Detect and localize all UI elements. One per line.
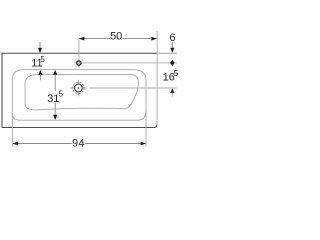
drain centerline horizontal (extends right to 16.5 chain) (90, 87, 177, 89)
drain center dot (78, 87, 80, 89)
dimension 50 left arrow (79, 37, 85, 41)
dimension 50 line (80, 38, 111, 40)
dimension 31.5 down arrow (53, 115, 57, 120)
dimension 94 right arrow (141, 142, 147, 146)
washbasin right edge + extension line for 50 dim (156, 31, 158, 125)
svg-text:5: 5 (40, 55, 45, 64)
svg-text:5: 5 (59, 90, 64, 99)
bowl opening (innermost rounded rect) (25, 75, 138, 110)
svg-text:5: 5 (174, 69, 179, 78)
dimension 16.5 up arrow (170, 88, 174, 93)
dimension 94 line (13, 143, 72, 145)
tap hole (77, 61, 81, 65)
dimension 6 down arrow (171, 42, 173, 48)
basin rim (inner rounded rect) (12, 70, 146, 121)
dimension 6 diamond marker (170, 60, 174, 67)
tap hole left tick (74, 62, 76, 64)
dimension 31.5 line upper (54, 74, 56, 90)
tap hole centerline horizontal (extends right to 6/16.5 chain) (82, 62, 177, 64)
tap hole bottom tick (78, 66, 80, 68)
svg-text:50: 50 (110, 31, 122, 43)
extension line top edge right (158, 52, 177, 54)
svg-text:94: 94 (72, 138, 85, 150)
dimension 31.5 line lower (54, 103, 56, 116)
tap hole centerline vertical (78, 39, 80, 61)
drain hole dashed bolt circle (73, 82, 84, 93)
dimension 31.5 up arrow (53, 70, 57, 75)
dimension 11.5 down arrow (39, 42, 41, 49)
dimension 94 left arrow (12, 142, 18, 146)
dimension 11.5 up arrow (38, 70, 42, 75)
dimension 50 right arrow (151, 37, 157, 41)
extension line 94 right (145, 110, 147, 147)
extension line 94 left (11, 113, 13, 147)
drain ticks (77, 80, 79, 83)
washbasin outer outline (dark) (2, 53, 157, 127)
drain hole solid circle (75, 84, 83, 92)
